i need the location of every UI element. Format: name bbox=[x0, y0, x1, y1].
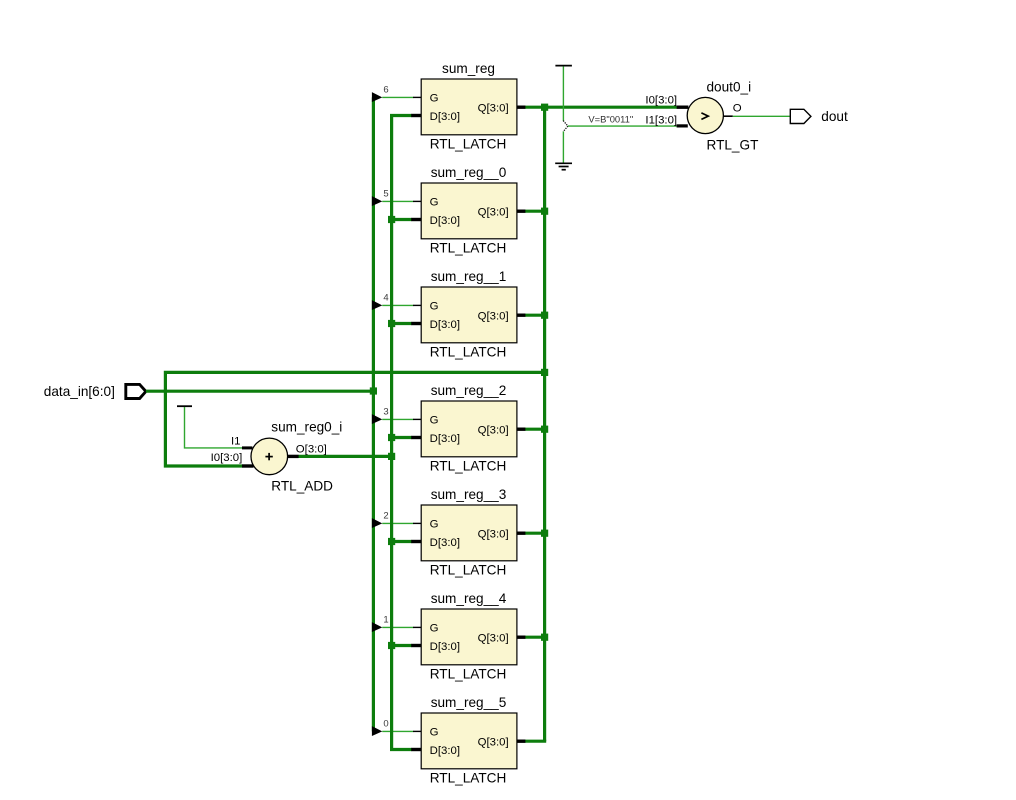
svg-text:sum_reg__3: sum_reg__3 bbox=[431, 487, 507, 502]
svg-text:dout: dout bbox=[821, 109, 848, 124]
wire Q pin to Q-bus connector y=211.2 bbox=[525, 210, 546, 213]
G-bus tap arrow bit 1 bbox=[372, 622, 382, 632]
svg-text:I0[3:0]: I0[3:0] bbox=[211, 452, 243, 464]
junction adder O / D bus bbox=[388, 453, 395, 460]
constant-1 tie-high T bar (adder I1) bbox=[177, 405, 192, 407]
pin Q[3:0] of sum_reg bbox=[517, 105, 526, 108]
wire Q pin to Q-bus connector y=533.2 bbox=[525, 532, 546, 535]
latch sum_reg (RTL_LATCH) bbox=[372, 61, 526, 152]
svg-text:G: G bbox=[430, 415, 439, 427]
pin Q[3:0] of sum_reg__2 bbox=[517, 428, 526, 431]
svg-text:sum_reg__5: sum_reg__5 bbox=[431, 695, 507, 710]
junction data_in / G bus bbox=[370, 387, 377, 394]
svg-text:Q[3:0]: Q[3:0] bbox=[478, 633, 509, 645]
pin O[3:0] of sum_reg0_i bbox=[287, 455, 298, 458]
junction Q bus y=315.2 bbox=[541, 312, 548, 319]
pin G of sum_reg__0 bbox=[413, 200, 421, 202]
svg-text:G: G bbox=[430, 93, 439, 105]
pin O of dout0_i bbox=[723, 115, 733, 117]
junction D bus y=645.5 bbox=[388, 642, 395, 649]
pin G of sum_reg__4 bbox=[413, 626, 421, 628]
pin G of sum_reg bbox=[413, 96, 421, 98]
pin Q[3:0] of sum_reg__1 bbox=[517, 314, 526, 317]
junction D bus y=219.5 bbox=[388, 216, 395, 223]
G-bus tap arrow bit 0 bbox=[372, 726, 382, 736]
svg-text:RTL_GT: RTL_GT bbox=[707, 137, 759, 152]
svg-text:RTL_LATCH: RTL_LATCH bbox=[430, 770, 507, 785]
junction Q bus y=637.2 bbox=[541, 634, 548, 641]
svg-text:0: 0 bbox=[383, 719, 388, 730]
svg-text:O[3:0]: O[3:0] bbox=[296, 443, 327, 455]
junction Q bus y=429.2 bbox=[541, 426, 548, 433]
svg-text:D[3:0]: D[3:0] bbox=[430, 111, 460, 123]
wire comparator O to dout port (thin) bbox=[733, 115, 791, 117]
pin G of sum_reg__5 bbox=[413, 730, 421, 732]
svg-text:I0[3:0]: I0[3:0] bbox=[645, 95, 677, 107]
wire Q pin to Q-bus connector y=315.2 bbox=[525, 314, 546, 317]
junction Q bus y=107.2 bbox=[541, 104, 548, 111]
svg-text:data_in[6:0]: data_in[6:0] bbox=[44, 384, 115, 399]
svg-text:V=B"0011": V=B"0011" bbox=[588, 113, 633, 124]
wire D-bus to D pin connector y=115.5 bbox=[390, 114, 412, 117]
wire feedback Q bus to adder I0 bbox=[165, 372, 544, 466]
svg-text:Q[3:0]: Q[3:0] bbox=[478, 103, 509, 115]
pin G of sum_reg__3 bbox=[413, 522, 421, 524]
svg-text:G: G bbox=[430, 197, 439, 209]
G-bus tap arrow bit 6 bbox=[372, 92, 382, 102]
svg-text:G: G bbox=[430, 623, 439, 635]
wire Q bus to comparator I0 bbox=[545, 106, 677, 109]
wire G tap bit 5 (thin) bbox=[382, 200, 413, 202]
junction D bus y=437.5 bbox=[388, 434, 395, 441]
pin G of sum_reg__1 bbox=[413, 304, 421, 306]
latch sum_reg__1 (RTL_LATCH) bbox=[372, 269, 526, 360]
latch sum_reg__2 (RTL_LATCH) bbox=[372, 383, 526, 474]
svg-text:D[3:0]: D[3:0] bbox=[430, 215, 460, 227]
wire D-bus to D pin connector y=645.5 bbox=[390, 644, 412, 647]
latch sum_reg__5 (RTL_LATCH) bbox=[372, 695, 526, 786]
wire constant vertical upper segment (thin) bbox=[562, 66, 564, 121]
pin I1[3:0] of dout0_i bbox=[677, 124, 688, 127]
svg-text:D[3:0]: D[3:0] bbox=[430, 319, 460, 331]
pin D[3:0] of sum_reg__2 bbox=[411, 436, 421, 439]
pin G of sum_reg__2 bbox=[413, 418, 421, 420]
wire D-bus to D pin connector y=323.5 bbox=[390, 322, 412, 325]
svg-text:G: G bbox=[430, 519, 439, 531]
svg-text:2: 2 bbox=[383, 511, 388, 522]
wire D-bus to D pin connector y=219.5 bbox=[390, 218, 412, 221]
input port data_in[6:0] bbox=[126, 384, 146, 398]
G-bus tap arrow bit 4 bbox=[372, 300, 382, 310]
svg-text:6: 6 bbox=[383, 85, 388, 96]
wire constant vertical lower segment (thin) bbox=[562, 131, 564, 163]
wire G tap bit 3 (thin) bbox=[382, 418, 413, 420]
pin D[3:0] of sum_reg bbox=[411, 114, 421, 117]
wire constant to comparator I1 (thin) bbox=[568, 125, 677, 127]
wire Q pin to Q-bus connector y=107.2 bbox=[525, 106, 546, 109]
svg-text:D[3:0]: D[3:0] bbox=[430, 537, 460, 549]
svg-text:Q[3:0]: Q[3:0] bbox=[478, 311, 509, 323]
pin D[3:0] of sum_reg__5 bbox=[411, 748, 421, 751]
G-bus tap arrow bit 2 bbox=[372, 518, 382, 528]
svg-text:I1: I1 bbox=[231, 435, 241, 447]
latch sum_reg__3 (RTL_LATCH) bbox=[372, 487, 526, 578]
svg-text:I1[3:0]: I1[3:0] bbox=[645, 114, 677, 126]
junction Q bus y=211.2 bbox=[541, 208, 548, 215]
wire G tap bit 1 (thin) bbox=[382, 626, 413, 628]
wire D-bus to D pin connector y=437.5 bbox=[390, 436, 412, 439]
pin D[3:0] of sum_reg__0 bbox=[411, 218, 421, 221]
svg-text:sum_reg: sum_reg bbox=[442, 61, 495, 76]
wire vertical Q bus (latch Q outputs) bbox=[543, 107, 546, 741]
wire D-bus to D pin connector y=749.5 bbox=[390, 748, 412, 751]
wire G tap bit 6 (thin) bbox=[382, 96, 413, 98]
wire D-bus to D pin connector y=541.5 bbox=[390, 540, 412, 543]
latch sum_reg__4 (RTL_LATCH) bbox=[372, 591, 526, 682]
G-bus tap arrow bit 3 bbox=[372, 414, 382, 424]
pin Q[3:0] of sum_reg__3 bbox=[517, 532, 526, 535]
junction D bus y=323.5 bbox=[388, 320, 395, 327]
pin Q[3:0] of sum_reg__4 bbox=[517, 636, 526, 639]
wire Q pin to Q-bus connector y=429.2 bbox=[525, 428, 546, 431]
wire Q pin to Q-bus connector y=637.2 bbox=[525, 636, 546, 639]
output port dout bbox=[790, 109, 811, 123]
constant tie-high T bar (comparator constant) bbox=[555, 65, 572, 67]
pin I0[3:0] of sum_reg0_i bbox=[242, 464, 254, 467]
svg-text:sum_reg0_i: sum_reg0_i bbox=[271, 419, 342, 434]
svg-text:G: G bbox=[430, 727, 439, 739]
svg-text:sum_reg__0: sum_reg__0 bbox=[431, 165, 507, 180]
svg-text:sum_reg__4: sum_reg__4 bbox=[431, 591, 507, 606]
wire G tap bit 4 (thin) bbox=[382, 304, 413, 306]
junction D bus y=541.5 bbox=[388, 538, 395, 545]
svg-text:RTL_LATCH: RTL_LATCH bbox=[430, 240, 507, 255]
adder sum_reg0_i (RTL_ADD) bbox=[211, 419, 343, 493]
wire Q pin to Q-bus connector y=741.2 bbox=[525, 740, 546, 743]
pin I1 of sum_reg0_i bbox=[242, 446, 252, 449]
bit-select chevron marker bbox=[563, 121, 568, 132]
svg-text:3: 3 bbox=[383, 407, 388, 418]
wire constant to adder I1 (thin) bbox=[185, 407, 243, 448]
ground symbol bbox=[555, 163, 572, 169]
svg-text:sum_reg__2: sum_reg__2 bbox=[431, 383, 507, 398]
greater-than symbol bbox=[701, 113, 708, 120]
pin D[3:0] of sum_reg__3 bbox=[411, 540, 421, 543]
wire G tap bit 2 (thin) bbox=[382, 522, 413, 524]
svg-text:Q[3:0]: Q[3:0] bbox=[478, 529, 509, 541]
plus symbol bbox=[265, 456, 272, 458]
svg-text:D[3:0]: D[3:0] bbox=[430, 433, 460, 445]
wire vertical D bus (adder output to latch D pins) bbox=[390, 116, 393, 750]
pin D[3:0] of sum_reg__1 bbox=[411, 322, 421, 325]
svg-text:5: 5 bbox=[383, 189, 388, 200]
pin Q[3:0] of sum_reg__0 bbox=[517, 209, 526, 212]
svg-text:Q[3:0]: Q[3:0] bbox=[478, 207, 509, 219]
pin D[3:0] of sum_reg__4 bbox=[411, 644, 421, 647]
svg-text:D[3:0]: D[3:0] bbox=[430, 745, 460, 757]
pin I0[3:0] of dout0_i bbox=[677, 105, 689, 108]
svg-text:4: 4 bbox=[383, 293, 388, 304]
svg-text:O: O bbox=[733, 103, 742, 115]
svg-text:RTL_LATCH: RTL_LATCH bbox=[430, 136, 507, 151]
svg-text:RTL_LATCH: RTL_LATCH bbox=[430, 344, 507, 359]
svg-text:RTL_LATCH: RTL_LATCH bbox=[430, 666, 507, 681]
svg-text:RTL_LATCH: RTL_LATCH bbox=[430, 458, 507, 473]
svg-text:dout0_i: dout0_i bbox=[707, 80, 752, 95]
wire vertical bus data_in to latch G pins bbox=[372, 97, 375, 731]
svg-text:D[3:0]: D[3:0] bbox=[430, 641, 460, 653]
svg-text:Q[3:0]: Q[3:0] bbox=[478, 737, 509, 749]
svg-text:sum_reg__1: sum_reg__1 bbox=[431, 269, 507, 284]
svg-text:1: 1 bbox=[383, 615, 388, 626]
svg-text:G: G bbox=[430, 301, 439, 313]
junction feedback / Q bus bbox=[541, 369, 548, 376]
pin Q[3:0] of sum_reg__5 bbox=[517, 740, 526, 743]
junction Q bus y=533.2 bbox=[541, 530, 548, 537]
comparator dout0_i (RTL_GT) bbox=[645, 80, 758, 153]
latch sum_reg__0 (RTL_LATCH) bbox=[372, 165, 526, 256]
svg-text:RTL_LATCH: RTL_LATCH bbox=[430, 562, 507, 577]
svg-text:Q[3:0]: Q[3:0] bbox=[478, 425, 509, 437]
wire adder output O to D bus bbox=[298, 455, 391, 458]
G-bus tap arrow bit 5 bbox=[372, 196, 382, 206]
wire G tap bit 0 (thin) bbox=[382, 730, 413, 732]
wire data_in net (port to G-bus junction) bbox=[146, 390, 375, 393]
svg-text:RTL_ADD: RTL_ADD bbox=[271, 478, 333, 493]
